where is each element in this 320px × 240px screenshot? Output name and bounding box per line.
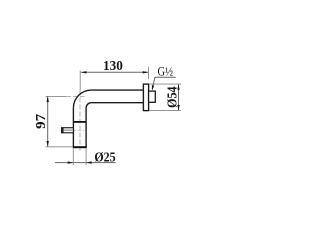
dimension 130 line [81, 71, 148, 73]
svg-text:130: 130 [103, 59, 123, 74]
wire vertical pipe left edge [72, 108, 74, 147]
wire elbow inner arc [86, 103, 91, 108]
wire pipe top edge [91, 89, 143, 91]
dimension diameter 25 line [55, 162, 116, 164]
wire extension lines of dia54 [149, 83, 181, 85]
wire leader line G1/2 [152, 77, 176, 89]
svg-text:Ø25: Ø25 [94, 149, 116, 164]
wire extension line right of 130 [148, 67, 150, 79]
wire pipe joint line [73, 121, 86, 123]
wire vertical pipe right edge [85, 108, 87, 147]
wire extension line bottom of 97 [46, 146, 73, 148]
wire pipe bottom edge [91, 102, 143, 104]
svg-text:G½: G½ [158, 64, 174, 79]
wire threaded nipple G1/2 [149, 91, 156, 102]
node centerline vertical pipe [79, 71, 81, 91]
svg-text:97: 97 [33, 114, 48, 129]
dimension 97 line [47, 96, 49, 146]
wire extension lines of dia25 [72, 149, 74, 165]
flange escutcheon [143, 84, 148, 111]
wire pipe outlet bottom edge [73, 146, 87, 148]
svg-text:Ø54: Ø54 [165, 86, 180, 108]
node centerline set screw [61, 129, 84, 131]
wire elbow outer arc [73, 90, 91, 108]
set screw [62, 128, 74, 133]
node centerline horizontal pipe [46, 95, 66, 97]
dimension diameter 54 line [178, 84, 180, 111]
